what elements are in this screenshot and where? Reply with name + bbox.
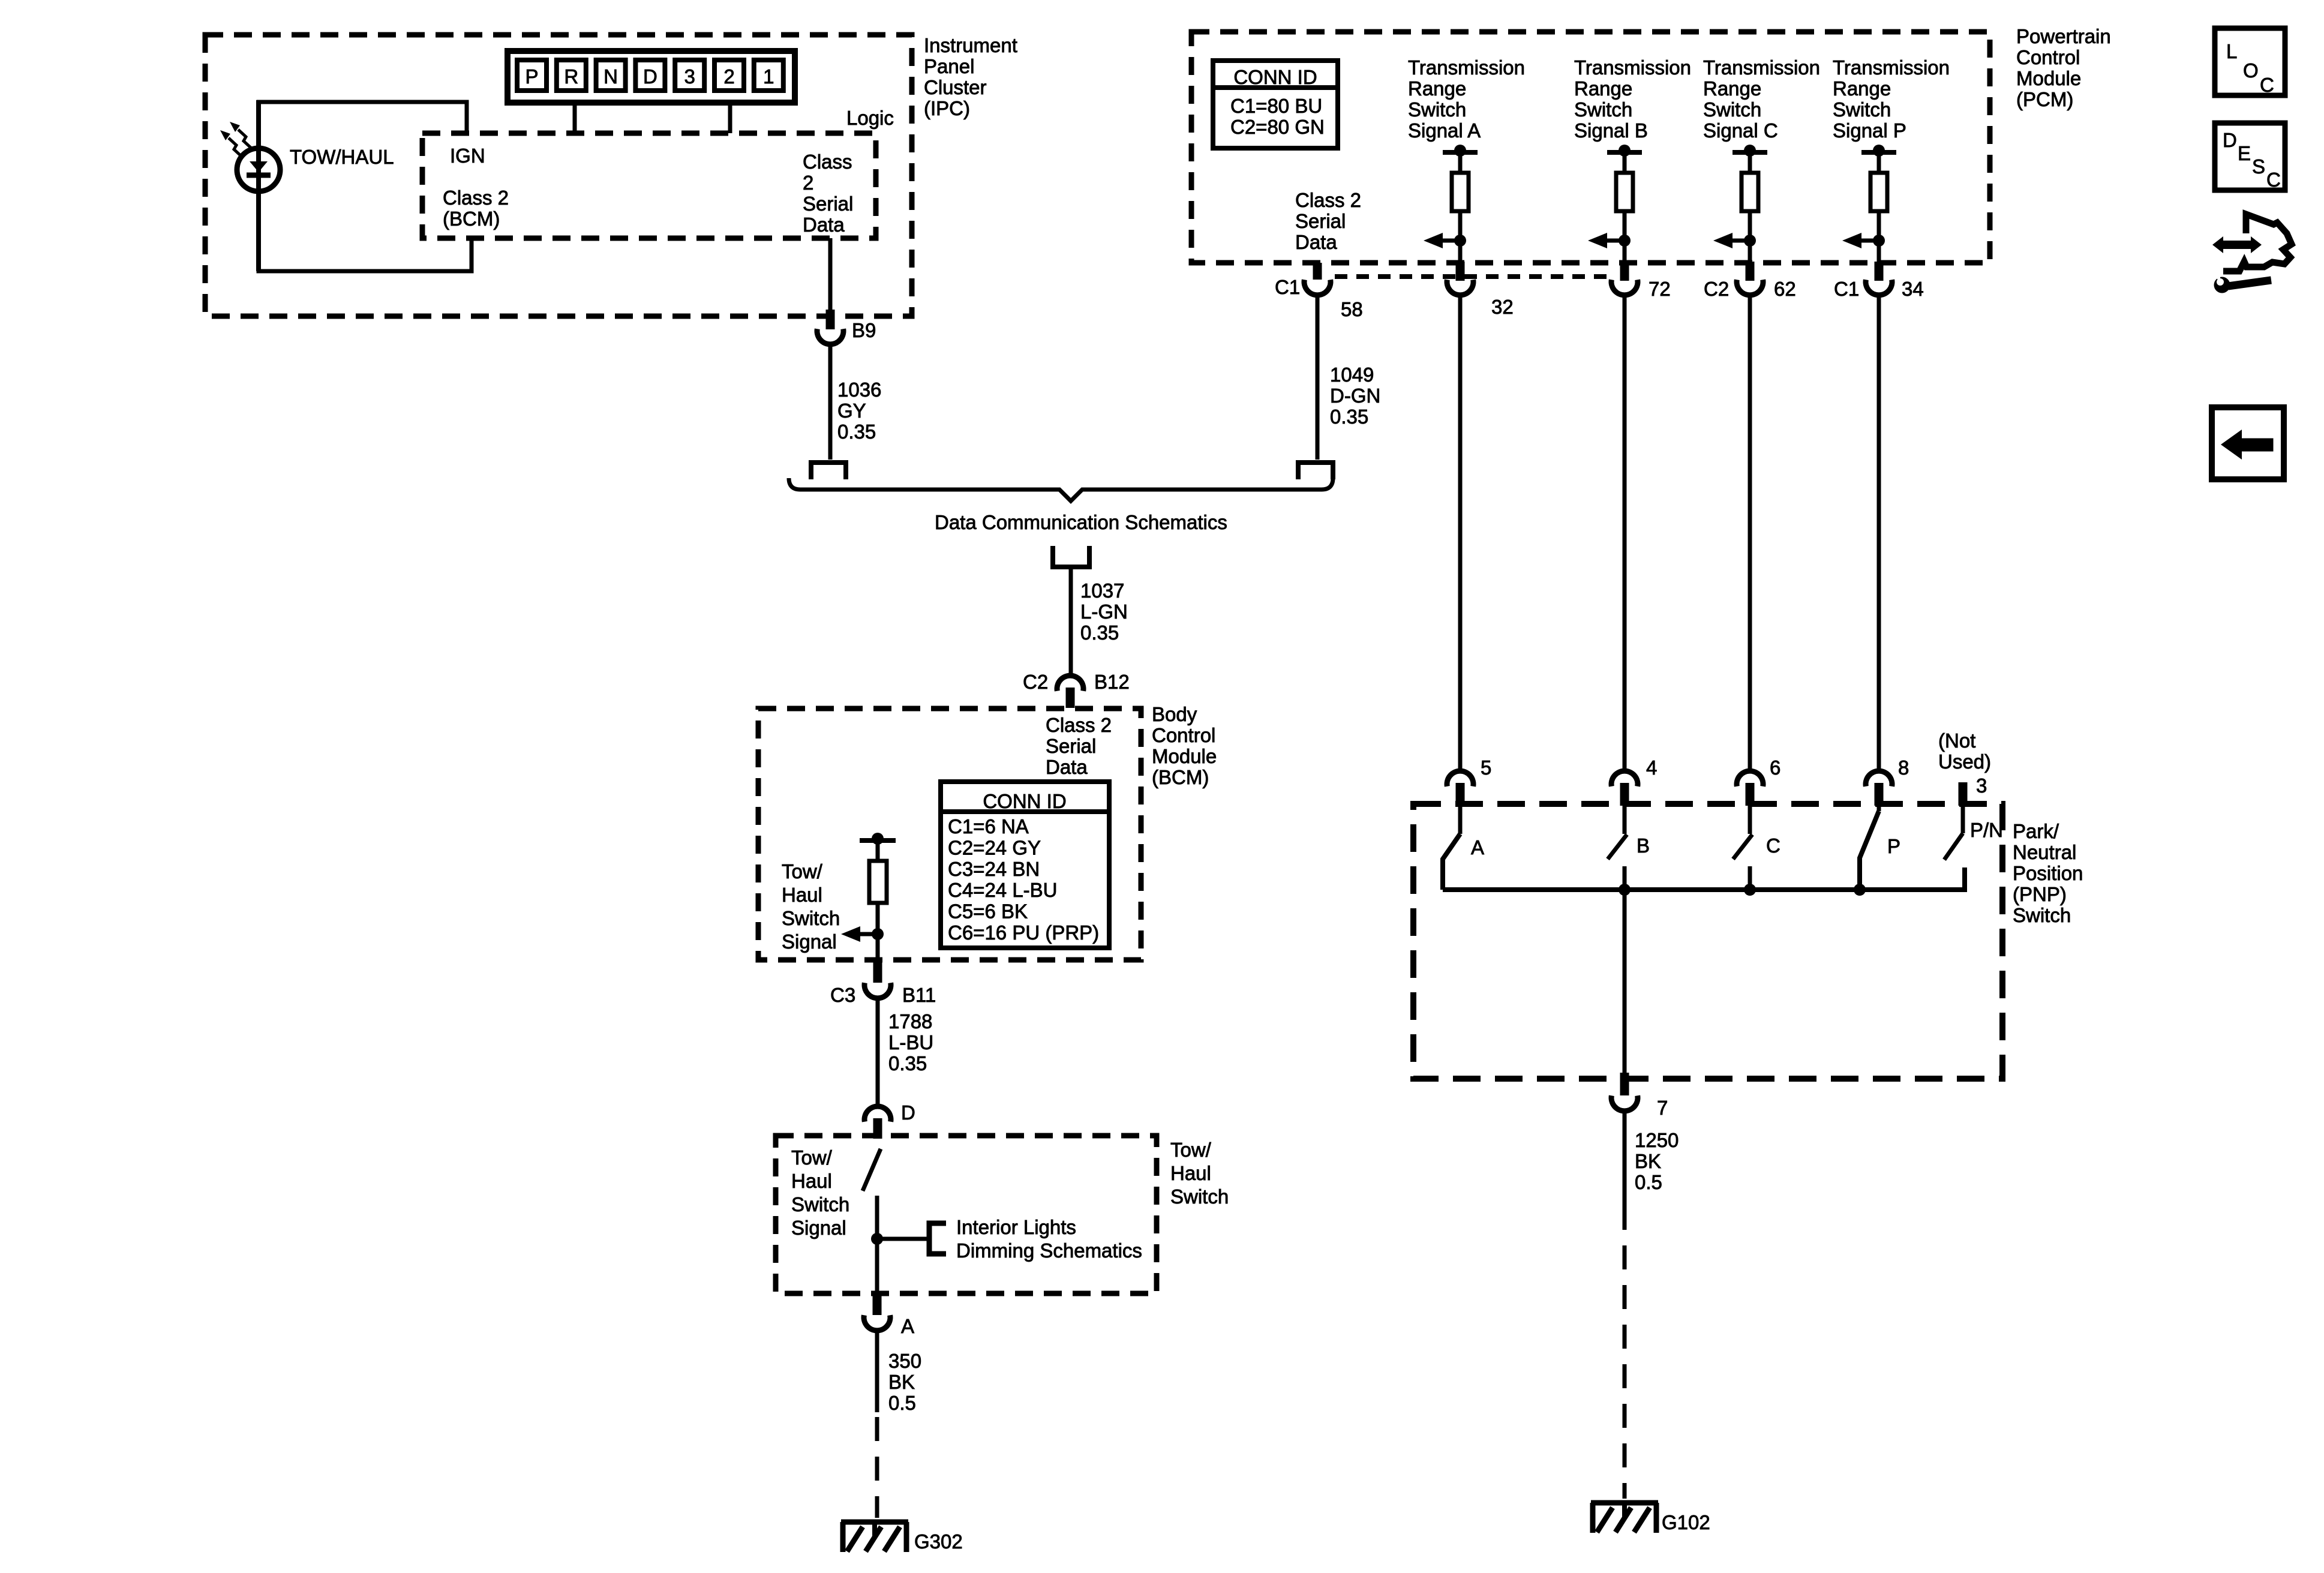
svg-text:CONN ID: CONN ID xyxy=(1233,66,1317,88)
svg-text:Neutral: Neutral xyxy=(2013,841,2076,863)
svg-text:C2: C2 xyxy=(1023,671,1048,693)
svg-text:Range: Range xyxy=(1574,77,1632,100)
svg-text:C6=16 PU (PRP): C6=16 PU (PRP) xyxy=(948,921,1099,944)
svg-text:Data: Data xyxy=(803,214,845,236)
svg-text:Range: Range xyxy=(1703,77,1761,100)
svg-text:(BCM): (BCM) xyxy=(1152,766,1209,788)
svg-text:D: D xyxy=(901,1101,915,1124)
svg-text:Switch: Switch xyxy=(791,1193,849,1215)
svg-text:8: 8 xyxy=(1898,757,1909,779)
svg-text:1049: 1049 xyxy=(1330,364,1374,386)
svg-text:Dimming Schematics: Dimming Schematics xyxy=(956,1239,1142,1262)
svg-text:L: L xyxy=(2226,40,2237,62)
svg-text:Panel: Panel xyxy=(924,55,974,77)
svg-text:P/N: P/N xyxy=(1970,819,2003,841)
svg-text:0.5: 0.5 xyxy=(888,1392,916,1414)
svg-text:L-BU: L-BU xyxy=(888,1031,933,1053)
svg-text:C3=24 BN: C3=24 BN xyxy=(948,858,1040,880)
svg-text:Data: Data xyxy=(1295,231,1337,253)
svg-text:350: 350 xyxy=(888,1350,921,1372)
svg-text:0.5: 0.5 xyxy=(1635,1171,1662,1193)
svg-text:Switch: Switch xyxy=(782,907,840,929)
svg-text:Switch: Switch xyxy=(1170,1185,1229,1208)
svg-text:32: 32 xyxy=(1491,296,1514,318)
svg-text:Data Communication Schematics: Data Communication Schematics xyxy=(935,511,1227,533)
svg-text:Data: Data xyxy=(1046,756,1088,778)
svg-text:Signal: Signal xyxy=(791,1217,846,1239)
svg-text:0.35: 0.35 xyxy=(837,421,876,443)
svg-text:BK: BK xyxy=(1635,1150,1661,1172)
svg-text:Cluster: Cluster xyxy=(924,76,987,98)
svg-text:Switch: Switch xyxy=(1703,98,1761,121)
svg-text:(Not: (Not xyxy=(1938,730,1975,752)
svg-text:Interior Lights: Interior Lights xyxy=(956,1216,1076,1238)
svg-text:34: 34 xyxy=(1902,278,1924,300)
svg-text:B9: B9 xyxy=(852,319,876,341)
svg-text:D-GN: D-GN xyxy=(1330,385,1380,407)
svg-text:4: 4 xyxy=(1646,757,1657,779)
svg-text:Transmission: Transmission xyxy=(1408,56,1525,79)
svg-text:72: 72 xyxy=(1649,278,1671,300)
svg-text:A: A xyxy=(1471,836,1484,858)
svg-text:Class 2: Class 2 xyxy=(1295,189,1361,211)
svg-text:TOW/HAUL: TOW/HAUL xyxy=(290,146,394,168)
svg-text:7: 7 xyxy=(1657,1097,1668,1119)
svg-text:C1: C1 xyxy=(1275,276,1300,298)
svg-text:Module: Module xyxy=(1152,745,1217,767)
svg-text:G302: G302 xyxy=(914,1530,963,1553)
svg-text:Used): Used) xyxy=(1938,751,1991,773)
svg-text:S: S xyxy=(2252,155,2265,178)
svg-text:Signal C: Signal C xyxy=(1703,119,1778,142)
svg-text:Range: Range xyxy=(1408,77,1466,100)
svg-text:2: 2 xyxy=(803,172,813,194)
svg-text:C5=6 BK: C5=6 BK xyxy=(948,900,1028,923)
svg-text:E: E xyxy=(2238,142,2251,164)
svg-text:Control: Control xyxy=(2016,46,2080,68)
svg-text:3: 3 xyxy=(1976,775,1987,797)
svg-text:Instrument: Instrument xyxy=(924,34,1017,56)
svg-text:Range: Range xyxy=(1833,77,1891,100)
svg-text:Switch: Switch xyxy=(1833,98,1891,121)
svg-text:Control: Control xyxy=(1152,724,1215,746)
svg-text:62: 62 xyxy=(1774,278,1796,300)
svg-text:0.35: 0.35 xyxy=(1330,406,1368,428)
svg-text:BK: BK xyxy=(888,1371,915,1393)
svg-text:(PCM): (PCM) xyxy=(2016,88,2073,110)
svg-text:Module: Module xyxy=(2016,67,2081,89)
svg-text:0.35: 0.35 xyxy=(1080,622,1119,644)
svg-text:Haul: Haul xyxy=(782,884,822,906)
svg-text:58: 58 xyxy=(1341,298,1363,320)
svg-text:B: B xyxy=(1637,834,1650,857)
svg-text:C1=80 BU: C1=80 BU xyxy=(1230,95,1322,117)
svg-text:C4=24 L-BU: C4=24 L-BU xyxy=(948,879,1058,901)
svg-text:1788: 1788 xyxy=(888,1010,932,1032)
svg-text:(BCM): (BCM) xyxy=(443,208,500,230)
svg-text:B11: B11 xyxy=(902,984,936,1006)
svg-text:G102: G102 xyxy=(1662,1511,1710,1533)
svg-text:N: N xyxy=(603,65,618,88)
svg-text:C1=6 NA: C1=6 NA xyxy=(948,815,1029,837)
svg-text:5: 5 xyxy=(1481,757,1491,779)
svg-text:Serial: Serial xyxy=(1295,210,1346,232)
svg-text:CONN ID: CONN ID xyxy=(983,790,1066,812)
svg-text:B12: B12 xyxy=(1094,671,1130,693)
svg-text:Switch: Switch xyxy=(1574,98,1632,121)
svg-text:Transmission: Transmission xyxy=(1574,56,1691,79)
svg-text:D: D xyxy=(2223,129,2237,151)
svg-text:L-GN: L-GN xyxy=(1080,601,1128,623)
svg-text:6: 6 xyxy=(1770,757,1780,779)
svg-text:A: A xyxy=(901,1315,914,1337)
svg-text:C: C xyxy=(2266,169,2281,191)
svg-text:Class 2: Class 2 xyxy=(1046,714,1112,736)
svg-text:C: C xyxy=(1766,834,1780,857)
svg-text:IGN: IGN xyxy=(450,145,485,167)
svg-text:Transmission: Transmission xyxy=(1833,56,1950,79)
svg-text:Haul: Haul xyxy=(791,1170,832,1192)
svg-text:GY: GY xyxy=(837,400,866,422)
svg-text:Serial: Serial xyxy=(1046,735,1096,757)
svg-text:C: C xyxy=(2260,74,2274,96)
svg-text:1250: 1250 xyxy=(1635,1129,1679,1151)
svg-text:Position: Position xyxy=(2013,862,2083,884)
svg-text:Tow/: Tow/ xyxy=(782,860,823,882)
svg-text:D: D xyxy=(643,65,657,88)
svg-text:Transmission: Transmission xyxy=(1703,56,1820,79)
svg-text:Powertrain: Powertrain xyxy=(2016,25,2111,47)
svg-text:C2=24 GY: C2=24 GY xyxy=(948,836,1041,858)
svg-text:Signal: Signal xyxy=(782,930,837,953)
svg-text:Body: Body xyxy=(1152,703,1197,725)
svg-text:Haul: Haul xyxy=(1170,1162,1211,1184)
svg-text:(IPC): (IPC) xyxy=(924,97,970,119)
svg-text:P: P xyxy=(525,65,538,88)
svg-text:C1: C1 xyxy=(1834,278,1859,300)
svg-text:Logic: Logic xyxy=(846,107,894,129)
svg-text:Signal A: Signal A xyxy=(1408,119,1481,142)
svg-text:1: 1 xyxy=(763,65,774,88)
svg-text:C2: C2 xyxy=(1704,278,1729,300)
svg-text:C3: C3 xyxy=(830,984,855,1006)
svg-text:(PNP): (PNP) xyxy=(2013,883,2067,905)
svg-text:1036: 1036 xyxy=(837,379,881,401)
svg-text:Switch: Switch xyxy=(2013,904,2071,926)
svg-text:R: R xyxy=(564,65,578,88)
svg-text:Signal P: Signal P xyxy=(1833,119,1906,142)
svg-text:Tow/: Tow/ xyxy=(791,1146,833,1169)
svg-text:3: 3 xyxy=(684,65,695,88)
svg-text:Class: Class xyxy=(803,151,852,173)
svg-text:Park/: Park/ xyxy=(2013,820,2059,842)
svg-text:Class 2: Class 2 xyxy=(443,187,509,209)
svg-text:Signal B: Signal B xyxy=(1574,119,1648,142)
svg-text:C2=80 GN: C2=80 GN xyxy=(1230,116,1325,138)
svg-text:2: 2 xyxy=(723,65,734,88)
svg-text:O: O xyxy=(2243,59,2259,82)
svg-text:Tow/: Tow/ xyxy=(1170,1139,1212,1161)
svg-text:P: P xyxy=(1887,835,1900,857)
svg-text:1037: 1037 xyxy=(1080,580,1124,602)
svg-text:Switch: Switch xyxy=(1408,98,1466,121)
svg-text:Serial: Serial xyxy=(803,193,853,215)
svg-text:0.35: 0.35 xyxy=(888,1052,927,1074)
